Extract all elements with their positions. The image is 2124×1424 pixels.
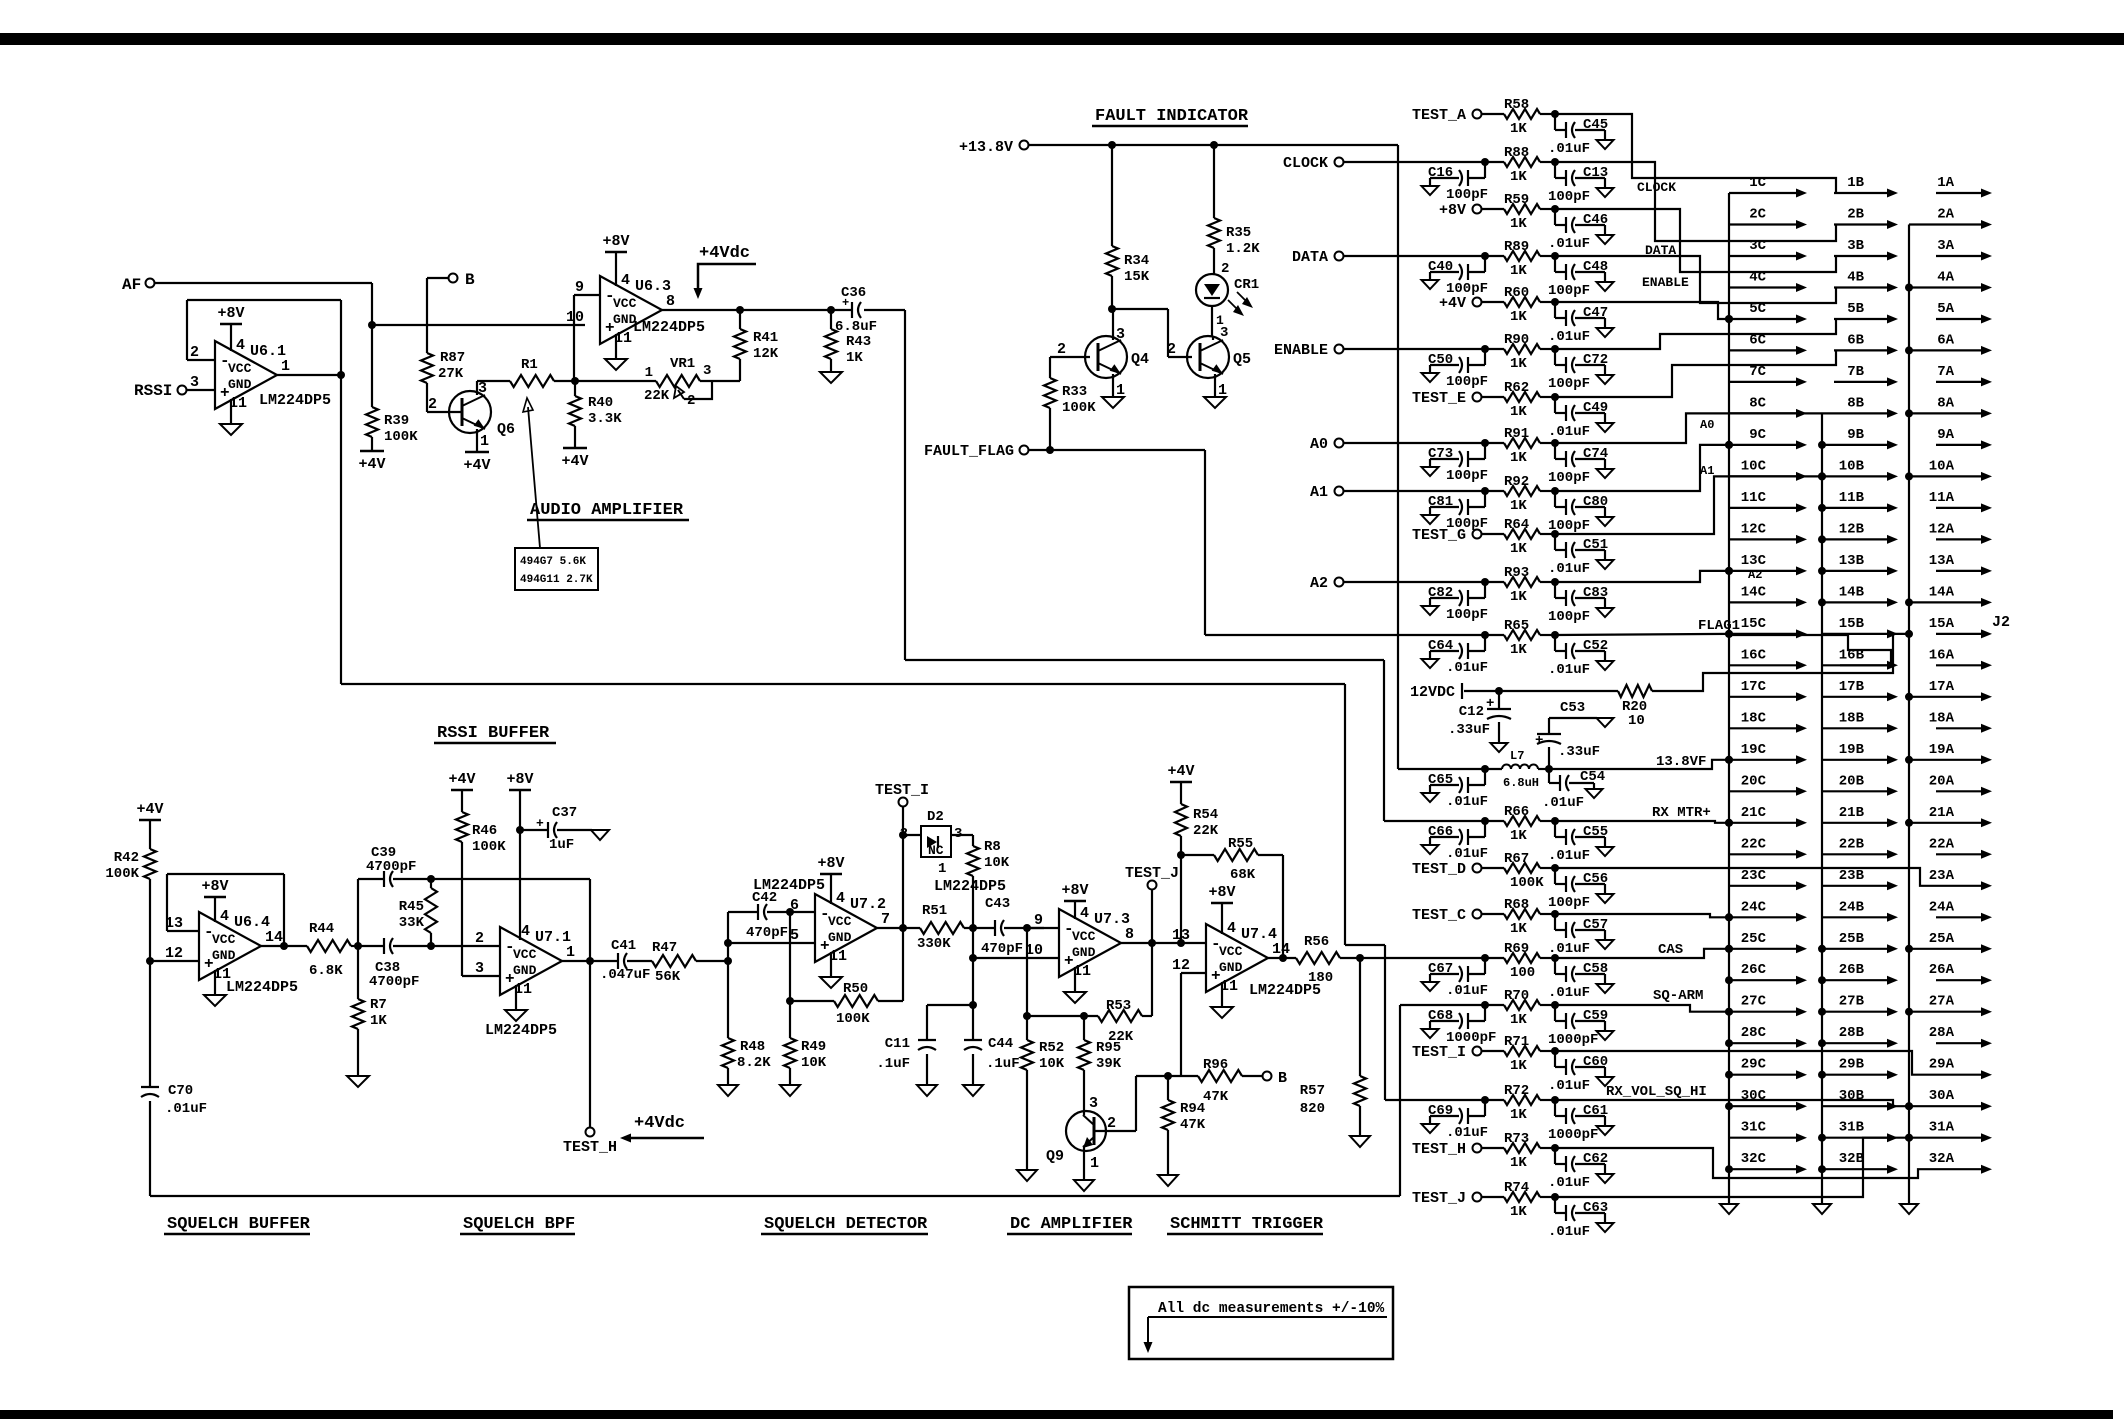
svg-text:1A: 1A bbox=[1937, 175, 1954, 191]
svg-text:100pF: 100pF bbox=[1548, 376, 1590, 392]
svg-text:R67: R67 bbox=[1504, 851, 1529, 867]
svg-text:LM224DP5: LM224DP5 bbox=[259, 392, 331, 409]
svg-text:.01uF: .01uF bbox=[1548, 985, 1590, 1001]
svg-text:VCC: VCC bbox=[212, 932, 236, 947]
bus C column vertical bbox=[1728, 193, 1730, 1204]
svg-text:+8V: +8V bbox=[201, 878, 228, 895]
svg-text:CLOCK: CLOCK bbox=[1283, 155, 1328, 172]
svg-text:4: 4 bbox=[220, 908, 229, 925]
svg-text:C64: C64 bbox=[1428, 638, 1453, 654]
resistor R92 bbox=[1482, 490, 1504, 492]
svg-text:C70: C70 bbox=[168, 1083, 193, 1099]
svg-text:2: 2 bbox=[190, 344, 199, 361]
capacitor C56 bbox=[1551, 864, 1559, 872]
transistor Q4 bbox=[1050, 356, 1090, 358]
svg-text:R65: R65 bbox=[1504, 618, 1529, 634]
capacitor C41 bbox=[617, 953, 619, 969]
svg-text:C46: C46 bbox=[1583, 212, 1608, 228]
resistor R20 bbox=[1499, 690, 1618, 692]
svg-text:B: B bbox=[465, 271, 475, 289]
wire C39 top rail to U7.1 output bbox=[431, 878, 590, 880]
svg-text:21A: 21A bbox=[1929, 805, 1955, 821]
wire 13.8V feed to L7 row bbox=[1398, 768, 1482, 770]
resistor R67 bbox=[1482, 867, 1504, 869]
svg-text:R73: R73 bbox=[1504, 1131, 1529, 1147]
svg-text:68K: 68K bbox=[1230, 867, 1256, 883]
svg-text:R47: R47 bbox=[652, 940, 677, 956]
svg-text:.01uF: .01uF bbox=[1548, 561, 1590, 577]
svg-text:R50: R50 bbox=[843, 981, 868, 997]
capacitor C70 bbox=[149, 961, 151, 1087]
svg-text:30A: 30A bbox=[1929, 1088, 1955, 1104]
svg-text:1K: 1K bbox=[1510, 921, 1527, 937]
svg-text:R74: R74 bbox=[1504, 1180, 1529, 1196]
wire TEST_I drop bbox=[902, 807, 904, 928]
svg-text:8B: 8B bbox=[1847, 395, 1864, 411]
svg-text:56K: 56K bbox=[655, 969, 681, 985]
svg-text:100pF: 100pF bbox=[1446, 468, 1488, 484]
svg-text:C16: C16 bbox=[1428, 165, 1453, 181]
resistor R55 bbox=[1181, 854, 1214, 856]
wire routing run 7 bbox=[1555, 350, 1836, 397]
svg-text:+4V: +4V bbox=[1167, 763, 1194, 780]
capacitor C82 bbox=[1481, 578, 1489, 586]
svg-text:3: 3 bbox=[475, 960, 484, 977]
capacitor C50 bbox=[1481, 345, 1489, 353]
ground below B bus bbox=[1813, 1204, 1831, 1214]
svg-text:+4V: +4V bbox=[1439, 295, 1466, 312]
svg-text:25C: 25C bbox=[1741, 931, 1767, 947]
svg-text:SQUELCH DETECTOR: SQUELCH DETECTOR bbox=[764, 1215, 928, 1234]
svg-text:C68: C68 bbox=[1428, 1008, 1453, 1024]
svg-text:4700pF: 4700pF bbox=[369, 974, 419, 990]
svg-text:25A: 25A bbox=[1929, 931, 1955, 947]
power +4V below R39 bbox=[360, 450, 384, 453]
svg-text:R41: R41 bbox=[753, 330, 778, 346]
wire routing run 10 bbox=[1555, 476, 1822, 534]
wire routing run 19 bbox=[1555, 1051, 1936, 1075]
svg-text:28C: 28C bbox=[1741, 1025, 1767, 1041]
svg-text:6A: 6A bbox=[1937, 332, 1954, 348]
svg-text:.33uF: .33uF bbox=[1448, 722, 1490, 738]
svg-text:1K: 1K bbox=[1510, 1012, 1527, 1028]
svg-text:39K: 39K bbox=[1096, 1056, 1122, 1072]
svg-text:6C: 6C bbox=[1749, 332, 1766, 348]
svg-text:L7: L7 bbox=[1510, 749, 1524, 763]
svg-text:CLOCK: CLOCK bbox=[1637, 180, 1676, 195]
capacitor C52 bbox=[1551, 631, 1559, 639]
svg-text:1: 1 bbox=[938, 861, 946, 877]
wire Q6 collector bbox=[476, 381, 478, 395]
svg-text:TEST_J: TEST_J bbox=[1412, 1190, 1466, 1207]
svg-text:18C: 18C bbox=[1741, 710, 1767, 726]
svg-text:10: 10 bbox=[566, 309, 584, 326]
ground below Q5 bbox=[1204, 397, 1226, 408]
svg-text:R53: R53 bbox=[1106, 998, 1131, 1014]
svg-text:C74: C74 bbox=[1583, 446, 1608, 462]
svg-text:1000pF: 1000pF bbox=[1548, 1127, 1598, 1143]
resistor R89 bbox=[1482, 255, 1504, 257]
node junction R1/R40/pin9 bbox=[571, 377, 579, 385]
svg-text:C67: C67 bbox=[1428, 961, 1453, 977]
top border bar bbox=[0, 33, 2124, 45]
wire routing run 11 bbox=[1555, 571, 1729, 582]
resistor R66 bbox=[1482, 820, 1504, 822]
ground below R48 bbox=[718, 1085, 738, 1096]
svg-text:CR1: CR1 bbox=[1234, 277, 1259, 293]
svg-text:C45: C45 bbox=[1583, 117, 1608, 133]
capacitor C39 bbox=[357, 879, 359, 946]
resistor R62 bbox=[1482, 396, 1504, 398]
wire routing run 4 bbox=[1555, 256, 1836, 303]
svg-text:2: 2 bbox=[900, 826, 908, 842]
svg-text:C60: C60 bbox=[1583, 1054, 1608, 1070]
svg-text:+: + bbox=[536, 816, 544, 831]
svg-text:.01uF: .01uF bbox=[1548, 424, 1590, 440]
svg-text:3.3K: 3.3K bbox=[588, 411, 622, 427]
svg-text:3: 3 bbox=[478, 380, 487, 397]
svg-text:7B: 7B bbox=[1847, 364, 1864, 380]
wire AF to pin10 of U6.3 bbox=[155, 282, 372, 284]
capacitor C48 bbox=[1551, 252, 1559, 260]
resistor R95 bbox=[1080, 1012, 1088, 1020]
capacitor C73 bbox=[1481, 439, 1489, 447]
svg-text:LM224DP5: LM224DP5 bbox=[753, 877, 825, 894]
svg-text:12: 12 bbox=[165, 945, 183, 962]
svg-text:1K: 1K bbox=[1510, 450, 1527, 466]
svg-text:2: 2 bbox=[1221, 261, 1229, 277]
capacitor C40 bbox=[1481, 252, 1489, 260]
wire U6.3 pin9 feedback bbox=[573, 295, 575, 381]
svg-text:R60: R60 bbox=[1504, 285, 1529, 301]
svg-text:R44: R44 bbox=[309, 921, 334, 937]
wire FAULT_FLAG to FLAG row bbox=[1029, 449, 1205, 451]
svg-text:+4V: +4V bbox=[358, 456, 385, 473]
svg-text:3: 3 bbox=[703, 363, 711, 379]
svg-text:2: 2 bbox=[475, 930, 484, 947]
resistor R88 bbox=[1482, 161, 1504, 163]
resistor R54 bbox=[1170, 781, 1192, 784]
svg-text:31B: 31B bbox=[1839, 1120, 1865, 1136]
svg-text:2: 2 bbox=[1107, 1115, 1116, 1132]
ground below Q9 bbox=[1074, 1180, 1094, 1191]
wire U6.1 feedback bbox=[187, 359, 215, 361]
svg-text:14: 14 bbox=[1272, 941, 1290, 958]
svg-text:470pF: 470pF bbox=[746, 925, 788, 941]
node B bbox=[449, 274, 458, 283]
capacitor C65 bbox=[1481, 765, 1489, 773]
svg-text:2: 2 bbox=[428, 396, 437, 413]
svg-text:GND: GND bbox=[212, 948, 236, 963]
svg-text:100pF: 100pF bbox=[1446, 607, 1488, 623]
svg-text:9A: 9A bbox=[1937, 427, 1954, 443]
wire R46 to U7.1 pin3 bbox=[462, 975, 500, 977]
capacitor C83 bbox=[1551, 578, 1559, 586]
ground right of C37 bbox=[591, 830, 609, 840]
capacitor C36 bbox=[851, 302, 853, 318]
svg-text:.01uF: .01uF bbox=[1542, 795, 1584, 811]
svg-text:DATA: DATA bbox=[1292, 249, 1328, 266]
svg-text:28A: 28A bbox=[1929, 1025, 1955, 1041]
svg-text:1: 1 bbox=[1090, 1155, 1099, 1172]
svg-text:8: 8 bbox=[666, 293, 675, 310]
capacitor C61 bbox=[1551, 1096, 1559, 1104]
svg-text:21B: 21B bbox=[1839, 805, 1865, 821]
svg-text:R46: R46 bbox=[472, 823, 497, 839]
svg-text:C73: C73 bbox=[1428, 446, 1453, 462]
svg-text:15A: 15A bbox=[1929, 616, 1955, 632]
svg-text:C81: C81 bbox=[1428, 494, 1453, 510]
svg-text:20C: 20C bbox=[1741, 773, 1767, 789]
wire U7.1 output bbox=[562, 960, 618, 962]
svg-text:12VDC: 12VDC bbox=[1410, 684, 1455, 701]
wire L7 row to connector bbox=[1549, 760, 1729, 769]
svg-text:Q9: Q9 bbox=[1046, 1148, 1064, 1165]
wire routing run 20 bbox=[1555, 1100, 1909, 1106]
svg-text:2B: 2B bbox=[1847, 207, 1864, 223]
svg-text:4: 4 bbox=[1227, 920, 1236, 937]
svg-text:R42: R42 bbox=[114, 850, 139, 866]
svg-text:7C: 7C bbox=[1749, 364, 1766, 380]
svg-text:+8V: +8V bbox=[1061, 882, 1088, 899]
svg-text:20B: 20B bbox=[1839, 773, 1865, 789]
svg-text:10K: 10K bbox=[984, 855, 1010, 871]
svg-text:100K: 100K bbox=[384, 429, 418, 445]
resistor R41 bbox=[736, 306, 744, 314]
svg-text:C49: C49 bbox=[1583, 400, 1608, 416]
svg-text:R58: R58 bbox=[1504, 97, 1529, 113]
svg-text:C51: C51 bbox=[1583, 537, 1608, 553]
resistor R43 bbox=[827, 306, 835, 314]
svg-text:.01uF: .01uF bbox=[1548, 1175, 1590, 1191]
capacitor C46 bbox=[1551, 205, 1559, 213]
svg-text:820: 820 bbox=[1300, 1101, 1325, 1117]
svg-text:J2: J2 bbox=[1992, 614, 2010, 631]
svg-text:4: 4 bbox=[236, 337, 245, 354]
svg-text:32A: 32A bbox=[1929, 1151, 1955, 1167]
svg-text:494G7 5.6K: 494G7 5.6K bbox=[520, 556, 586, 568]
wire U7.2 pin5 bbox=[724, 939, 732, 947]
svg-text:12K: 12K bbox=[753, 346, 779, 362]
svg-text:27A: 27A bbox=[1929, 994, 1955, 1010]
svg-text:C61: C61 bbox=[1583, 1103, 1608, 1119]
svg-text:C82: C82 bbox=[1428, 585, 1453, 601]
svg-text:1K: 1K bbox=[1510, 498, 1527, 514]
capacitor C57 bbox=[1551, 910, 1559, 918]
svg-text:1.2K: 1.2K bbox=[1226, 241, 1260, 257]
svg-text:24C: 24C bbox=[1741, 899, 1767, 915]
svg-text:.01uF: .01uF bbox=[1548, 1078, 1590, 1094]
svg-text:5: 5 bbox=[790, 927, 799, 944]
note box all dc measurements bbox=[1129, 1287, 1393, 1359]
svg-text:6.8uF: 6.8uF bbox=[835, 319, 877, 335]
capacitor C80 bbox=[1551, 487, 1559, 495]
svg-text:.01uF: .01uF bbox=[1548, 329, 1590, 345]
wire routing run 21 bbox=[1555, 1148, 1936, 1178]
svg-text:1K: 1K bbox=[1510, 1058, 1527, 1074]
wire U6.4 feedback bbox=[167, 930, 199, 932]
capacitor C81 bbox=[1481, 487, 1489, 495]
resistor R7 bbox=[427, 942, 435, 950]
wire routing run 13 bbox=[1729, 635, 1891, 665]
svg-text:C12: C12 bbox=[1459, 704, 1484, 720]
wire routing run 16 bbox=[1555, 914, 1729, 917]
svg-text:2A: 2A bbox=[1937, 207, 1954, 223]
svg-text:27K: 27K bbox=[438, 366, 464, 382]
svg-text:LM224DP5: LM224DP5 bbox=[934, 878, 1006, 895]
wire routing run 3 bbox=[1555, 209, 1836, 272]
svg-text:4C: 4C bbox=[1749, 270, 1766, 286]
wire bottom rail to SQ-ARM row bbox=[150, 1195, 1400, 1197]
svg-text:1K: 1K bbox=[1510, 828, 1527, 844]
svg-text:SQ-ARM: SQ-ARM bbox=[1653, 988, 1703, 1004]
svg-text:3: 3 bbox=[1220, 325, 1228, 341]
svg-text:R57: R57 bbox=[1300, 1083, 1325, 1099]
svg-text:3C: 3C bbox=[1749, 238, 1766, 254]
svg-text:3: 3 bbox=[1089, 1095, 1098, 1112]
svg-text:R40: R40 bbox=[588, 395, 613, 411]
resistor R71 bbox=[1482, 1050, 1504, 1052]
resistor R35 bbox=[1213, 145, 1215, 218]
resistor R72 bbox=[1482, 1099, 1504, 1101]
svg-text:ENABLE: ENABLE bbox=[1274, 342, 1328, 359]
resistor R49 bbox=[789, 912, 791, 1038]
svg-text:17B: 17B bbox=[1839, 679, 1865, 695]
svg-text:R93: R93 bbox=[1504, 565, 1529, 581]
svg-text:C52: C52 bbox=[1583, 638, 1608, 654]
capacitor C42 bbox=[727, 912, 729, 961]
svg-text:R96: R96 bbox=[1203, 1057, 1228, 1073]
svg-text:C58: C58 bbox=[1583, 961, 1608, 977]
svg-text:15K: 15K bbox=[1124, 269, 1150, 285]
svg-text:C63: C63 bbox=[1583, 1200, 1608, 1216]
wire routing run 2 bbox=[1555, 162, 1836, 241]
capacitor C43 bbox=[994, 920, 996, 936]
svg-text:28B: 28B bbox=[1839, 1025, 1865, 1041]
svg-text:4: 4 bbox=[521, 923, 530, 940]
diode D2 bbox=[903, 834, 921, 836]
svg-text:100K: 100K bbox=[105, 866, 139, 882]
ground below R7 bbox=[347, 1076, 369, 1087]
svg-text:+: + bbox=[1535, 733, 1543, 749]
wire U6.4 output bbox=[261, 945, 307, 947]
wire U7.2 output bbox=[877, 927, 920, 929]
svg-text:3B: 3B bbox=[1847, 238, 1864, 254]
svg-text:1K: 1K bbox=[1510, 589, 1527, 605]
svg-text:.1uF: .1uF bbox=[986, 1056, 1020, 1072]
svg-text:13C: 13C bbox=[1741, 553, 1767, 569]
svg-text:100pF: 100pF bbox=[1548, 895, 1590, 911]
svg-text:15B: 15B bbox=[1839, 616, 1865, 632]
svg-text:14C: 14C bbox=[1741, 584, 1767, 600]
ground below C bus bbox=[1720, 1204, 1738, 1214]
svg-text:VCC: VCC bbox=[513, 947, 537, 962]
svg-text:10K: 10K bbox=[801, 1055, 827, 1071]
svg-text:C54: C54 bbox=[1580, 769, 1605, 785]
svg-text:.01uF: .01uF bbox=[1548, 141, 1590, 157]
capacitor C63 bbox=[1551, 1193, 1559, 1201]
wire Q5 emitter bbox=[1214, 374, 1216, 397]
svg-text:.01uF: .01uF bbox=[1446, 794, 1488, 810]
svg-text:.01uF: .01uF bbox=[1446, 983, 1488, 999]
svg-text:4: 4 bbox=[836, 890, 845, 907]
svg-text:26B: 26B bbox=[1839, 962, 1865, 978]
svg-text:C62: C62 bbox=[1583, 1151, 1608, 1167]
svg-text:47K: 47K bbox=[1203, 1089, 1229, 1105]
svg-text:16C: 16C bbox=[1741, 647, 1767, 663]
svg-text:14A: 14A bbox=[1929, 584, 1955, 600]
svg-text:100pF: 100pF bbox=[1548, 609, 1590, 625]
capacitor C60 bbox=[1551, 1047, 1559, 1055]
svg-text:LM224DP5: LM224DP5 bbox=[485, 1022, 557, 1039]
svg-text:1K: 1K bbox=[846, 350, 863, 366]
svg-text:R89: R89 bbox=[1504, 239, 1529, 255]
svg-text:TEST_H: TEST_H bbox=[1412, 1141, 1466, 1158]
svg-text:100K: 100K bbox=[836, 1011, 870, 1027]
wire C36 output long route to RX MTR row bbox=[864, 309, 905, 311]
wire Q9 collector bbox=[1083, 1070, 1085, 1115]
svg-text:+8V: +8V bbox=[506, 771, 533, 788]
svg-text:33K: 33K bbox=[399, 915, 425, 931]
svg-text:12B: 12B bbox=[1839, 521, 1865, 537]
svg-text:AF: AF bbox=[122, 276, 141, 294]
capacitor C66 bbox=[1481, 817, 1489, 825]
svg-text:R62: R62 bbox=[1504, 380, 1529, 396]
svg-text:14B: 14B bbox=[1839, 584, 1865, 600]
svg-text:1K: 1K bbox=[1510, 1204, 1527, 1220]
svg-text:+13.8V: +13.8V bbox=[959, 139, 1013, 156]
capacitor C58 bbox=[1551, 954, 1559, 962]
capacitor C53 bbox=[1545, 765, 1553, 773]
svg-text:R51: R51 bbox=[922, 903, 947, 919]
resistor R8 bbox=[951, 834, 973, 836]
svg-text:9: 9 bbox=[575, 279, 584, 296]
svg-text:1K: 1K bbox=[1510, 169, 1527, 185]
svg-text:23B: 23B bbox=[1839, 868, 1865, 884]
ground below R57 bbox=[1350, 1136, 1370, 1147]
capacitor C54 bbox=[1548, 769, 1550, 783]
svg-text:VCC: VCC bbox=[613, 296, 637, 311]
svg-text:1: 1 bbox=[281, 358, 290, 375]
svg-text:R90: R90 bbox=[1504, 332, 1529, 348]
svg-text:29B: 29B bbox=[1839, 1057, 1865, 1073]
capacitor C72 bbox=[1551, 345, 1559, 353]
node after R51 bbox=[969, 924, 977, 932]
svg-text:22B: 22B bbox=[1839, 836, 1865, 852]
svg-text:B: B bbox=[1278, 1070, 1287, 1087]
svg-text:24B: 24B bbox=[1839, 899, 1865, 915]
svg-text:22K: 22K bbox=[1193, 823, 1219, 839]
svg-text:R55: R55 bbox=[1228, 836, 1253, 852]
svg-text:RSSI: RSSI bbox=[134, 382, 172, 400]
svg-text:9C: 9C bbox=[1749, 427, 1766, 443]
transistor Q5 bbox=[1168, 356, 1192, 358]
svg-text:100pF: 100pF bbox=[1446, 374, 1488, 390]
svg-text:1: 1 bbox=[645, 365, 653, 381]
svg-text:2C: 2C bbox=[1749, 207, 1766, 223]
capacitor C38 bbox=[358, 945, 384, 947]
resistor R87 bbox=[426, 278, 428, 353]
resistor R56 bbox=[1296, 952, 1340, 964]
svg-text:20A: 20A bbox=[1929, 773, 1955, 789]
svg-text:100: 100 bbox=[1510, 965, 1535, 981]
resistor R33 bbox=[1049, 357, 1051, 378]
pointer arrow from note box to R1 bbox=[528, 407, 540, 548]
ground below R94 bbox=[1158, 1175, 1178, 1186]
svg-text:C37: C37 bbox=[552, 805, 577, 821]
svg-text:R1: R1 bbox=[521, 357, 538, 373]
svg-text:1: 1 bbox=[566, 944, 575, 961]
